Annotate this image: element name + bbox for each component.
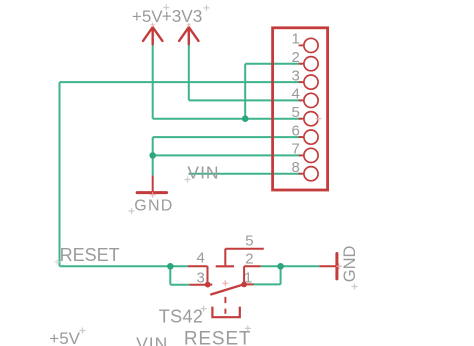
svg-text:3: 3 — [196, 270, 204, 287]
svg-text:VIN: VIN — [187, 163, 219, 183]
svg-text:2: 2 — [292, 49, 300, 66]
svg-text:+3V3: +3V3 — [162, 6, 203, 26]
svg-text:1: 1 — [292, 31, 300, 48]
svg-text:1: 1 — [244, 270, 252, 287]
svg-text:+5V: +5V — [132, 7, 163, 26]
svg-text:VIN: VIN — [136, 334, 168, 346]
svg-text:5: 5 — [292, 104, 300, 121]
svg-text:4: 4 — [196, 249, 204, 266]
svg-text:RESET: RESET — [60, 245, 120, 265]
svg-text:GND: GND — [341, 245, 359, 282]
svg-text:2: 2 — [245, 250, 253, 267]
svg-text:+5V: +5V — [49, 329, 80, 346]
svg-text:4: 4 — [292, 86, 300, 103]
svg-text:7: 7 — [292, 141, 300, 158]
svg-text:GND: GND — [134, 197, 173, 214]
svg-text:3: 3 — [292, 67, 300, 84]
svg-text:6: 6 — [292, 122, 300, 139]
svg-text:TS42: TS42 — [159, 307, 203, 327]
svg-text:RESET: RESET — [184, 329, 251, 346]
svg-text:5: 5 — [245, 233, 253, 250]
svg-text:8: 8 — [292, 159, 300, 176]
